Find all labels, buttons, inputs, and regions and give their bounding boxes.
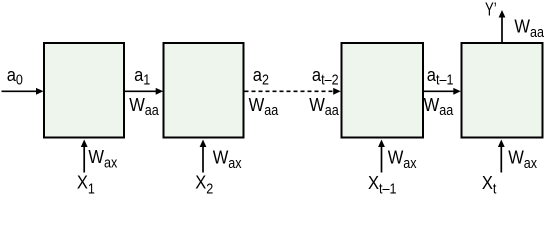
svg-text:Xt–1: Xt–1 xyxy=(368,172,397,197)
svg-text:Wax: Wax xyxy=(88,146,117,171)
svg-text:Y’: Y’ xyxy=(485,0,497,20)
svg-text:at–2: at–2 xyxy=(312,64,339,88)
svg-text:a2: a2 xyxy=(253,64,269,88)
svg-text:Wax: Wax xyxy=(213,146,242,171)
svg-text:Waa: Waa xyxy=(309,94,339,118)
svg-text:Waa: Waa xyxy=(514,16,544,40)
svg-text:Waa: Waa xyxy=(249,94,279,118)
svg-text:Waa: Waa xyxy=(424,94,454,118)
svg-text:at–1: at–1 xyxy=(427,64,454,88)
svg-text:Xt: Xt xyxy=(482,172,497,197)
svg-text:Waa: Waa xyxy=(129,94,159,118)
svg-text:X1: X1 xyxy=(77,172,95,197)
svg-text:Wax: Wax xyxy=(508,146,537,171)
svg-text:a0: a0 xyxy=(7,64,23,88)
svg-text:X2: X2 xyxy=(195,172,213,197)
svg-text:a1: a1 xyxy=(134,64,150,88)
svg-text:Wax: Wax xyxy=(388,146,417,171)
